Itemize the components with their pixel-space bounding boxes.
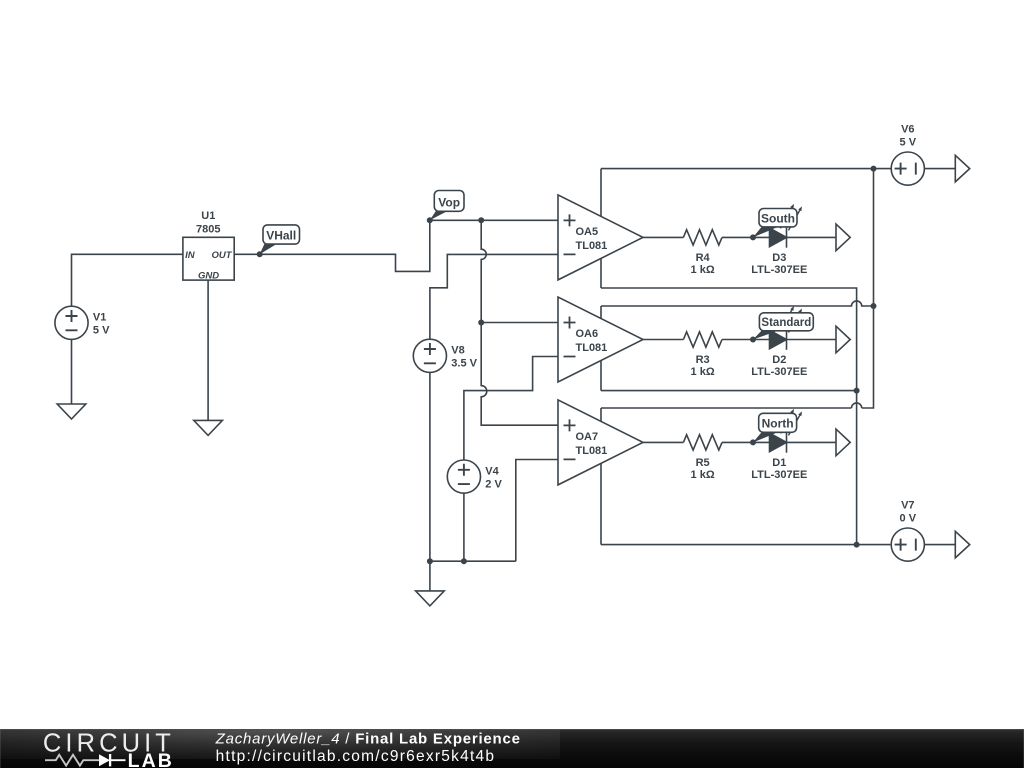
svg-text:D3: D3 [772,252,786,264]
wire V6 to rail [874,168,892,170]
junction V6 rail [871,166,877,172]
node North [750,413,797,445]
ground [57,404,86,419]
node South [750,209,797,241]
ground [194,420,223,435]
wire OA7 V+ rail (hop over 0V line) [601,403,862,422]
svg-text:TL081: TL081 [576,240,608,252]
svg-text:TL081: TL081 [576,342,608,354]
svg-text:V8: V8 [451,345,464,357]
junction V4 minus on ground rail [461,558,467,564]
junction OA6 V+ rail to +5V line [871,303,877,309]
op-amp OA5 [558,195,643,280]
svg-text:5 V: 5 V [93,325,110,337]
wire OA7 V- pin to bottom 0V rail [601,463,890,544]
svg-text:Vop: Vop [438,196,460,210]
svg-text:V6: V6 [901,123,914,135]
wire OA6 V+ pin and rail (hop over 0V line) [601,301,874,319]
junction 0V line on bottom rail [854,542,860,548]
svg-text:OA7: OA7 [576,431,599,443]
svg-text:http://circuitlab.com/c9r6exr5: http://circuitlab.com/c9r6exr5k4t4b [216,748,496,765]
svg-text:V7: V7 [901,499,914,511]
voltage source V6 5 V [891,123,924,185]
svg-text:0 V: 0 V [900,512,917,524]
svg-text:R4: R4 [696,252,711,264]
footer bar [0,729,1024,768]
op-amp OA6 [558,297,643,382]
wire V8 minus to ground rail [429,372,431,561]
svg-text:North: North [762,417,794,431]
junction on Vop wire [478,217,484,223]
svg-text:ZacharyWeller_4 / Final Lab Ex: ZacharyWeller_4 / Final Lab Experience [215,730,521,747]
output flag V6 [955,155,969,182]
wire D1 to output flag [787,441,837,443]
svg-text:OA5: OA5 [576,226,599,238]
wire Vop net down to OA6 and OA7 noninverting inputs (with hops) [481,220,558,425]
op-amp OA7 [558,400,643,485]
svg-text:IN: IN [185,250,196,261]
svg-text:R5: R5 [696,457,710,469]
wire R4 to D3 [722,236,770,238]
svg-text:V4: V4 [485,466,499,478]
svg-text:LTL-307EE: LTL-307EE [751,366,807,378]
CircuitLab logo resistor-diode squiggle [45,754,125,766]
svg-text:D1: D1 [772,457,786,469]
svg-text:7805: 7805 [196,223,220,235]
wire V6 to output flag [924,168,955,170]
svg-text:D2: D2 [772,354,786,366]
svg-text:LTL-307EE: LTL-307EE [751,264,807,276]
svg-text:R3: R3 [696,354,710,366]
wire R5 to D1 [722,441,770,443]
wire OA7 output [643,441,683,443]
voltage source V7 0 V [891,499,924,561]
wire U1 OUT to Vop node (VHall net) [234,220,430,271]
svg-text:1 kΩ: 1 kΩ [691,469,715,481]
wire V8 plus to OA5 inverting input [430,254,558,339]
LED D1 [751,409,807,481]
junction V8 minus on ground rail [427,558,433,564]
ground [416,591,445,606]
wire OA5 output [643,236,683,238]
wire OA6 output [643,339,683,341]
wire V1 plus to U1 IN [72,254,183,306]
voltage source V1 5 V [55,306,110,339]
svg-text:LAB: LAB [128,749,174,767]
junction Vop net to OA6 [478,320,484,326]
wire +5V vertical distribution [862,169,874,408]
output flag OA5 row [836,224,850,251]
node Standard [750,313,813,343]
LED D3 [751,204,807,276]
wire OA6 V- pin and rail [601,361,857,391]
wire V4 plus to OA6 inverting input [464,357,558,461]
svg-text:V1: V1 [93,312,106,324]
svg-text:2 V: 2 V [485,479,502,491]
wire OA7 inverting input to ground rail [516,460,558,562]
wire V4 minus to ground rail [463,493,465,561]
resistor R5 [683,435,722,481]
svg-text:5 V: 5 V [900,136,917,148]
output flag OA7 row [836,429,850,456]
wire OA5 V- pin to 0V vertical line [601,258,857,544]
svg-text:3.5 V: 3.5 V [451,358,477,370]
wire junction to OA6 noninverting input [481,322,558,324]
wire Vop node to OA5 noninverting input [430,219,558,221]
svg-text:U1: U1 [201,210,215,222]
svg-text:LTL-307EE: LTL-307EE [751,469,807,481]
node Vop [427,191,464,224]
voltage source V8 3.5 V [413,339,477,372]
wire OA5 V+ pin to +5V rail [601,169,874,217]
svg-text:1 kΩ: 1 kΩ [691,264,715,276]
node VHall [257,225,300,257]
svg-text:VHall: VHall [266,229,296,243]
output flag V7 [955,531,969,558]
regulator U1 7805 [183,210,234,281]
LED D2 [751,306,807,378]
ground rail wire [430,560,516,562]
output flag OA6 row [836,326,850,353]
resistor R4 [683,230,722,276]
wire V1 minus to ground [71,339,73,404]
svg-text:1 kΩ: 1 kΩ [691,366,715,378]
wire V7 to output flag [924,544,955,546]
junction OA6 V- rail on 0V line [854,388,860,394]
wire U1 GND pin [207,280,209,420]
svg-text:TL081: TL081 [576,445,608,457]
svg-text:OUT: OUT [211,250,232,261]
svg-text:South: South [761,211,795,225]
wire ground rail to ground symbol [429,561,431,591]
svg-text:OA6: OA6 [576,328,599,340]
resistor R3 [683,332,722,378]
wire D3 to output flag [787,236,837,238]
svg-text:GND: GND [198,271,219,282]
wire D2 to output flag [787,339,837,341]
wire R3 to D2 [722,339,770,341]
svg-text:Standard: Standard [761,317,811,329]
voltage source V4 2 V [447,460,502,493]
